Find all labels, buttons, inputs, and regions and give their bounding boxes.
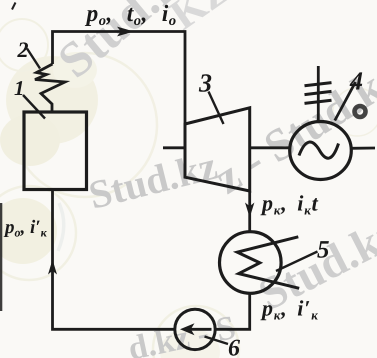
shaft stub left of turbine (163, 146, 185, 149)
scan blob near label 4 (dark watermark bug) (355, 106, 366, 117)
label pk,ikt exhaust steam parameters (260, 195, 318, 215)
label 5 condenser (317, 241, 329, 258)
label p0,ik' feedwater parameters (4, 220, 47, 237)
arrow: feedwater flow up (48, 260, 57, 275)
label p0,t0,i0 main steam parameters (85, 5, 176, 26)
wire: main steam line from boiler top to turbine inlet (53, 32, 186, 125)
arrow: steam flow right on main line (117, 27, 134, 37)
label pointer 4 (335, 82, 356, 121)
generator grid connection riser (317, 66, 320, 122)
condenser (item 5) (220, 232, 282, 294)
label pointer 3 (209, 92, 224, 125)
wire: condensate pipe condenser to pump (215, 294, 250, 330)
wire: exhaust steam pipe turbine to condenser (248, 191, 251, 232)
pump (item 6) (175, 309, 215, 349)
scan artifact bar at left edge (0, 203, 2, 311)
shaft stub right of generator (352, 147, 376, 150)
wire: feedwater pipe pump to boiler (53, 190, 175, 330)
turbine (item 3) (185, 108, 250, 191)
label pointer 5 (276, 252, 318, 272)
label 1 boiler (15, 81, 23, 95)
shaft turbine to generator (250, 146, 290, 149)
label 2 heat input (17, 42, 28, 57)
grid hatch marks (305, 83, 332, 104)
label 6 pump (229, 340, 240, 356)
label pointer 6 (205, 337, 229, 345)
pump flow arrow left (180, 323, 212, 335)
boiler U1 (item 1) (24, 112, 87, 190)
cooling water coil through condenser (237, 237, 299, 288)
heat input zigzag (flame mark, item 2) (35, 64, 65, 112)
sine mark inside generator (299, 142, 339, 158)
label pointer 2 (27, 49, 40, 69)
label pk,ik' condensate parameters (260, 300, 318, 320)
label pointer 1 (23, 95, 45, 119)
label 3 turbine (199, 74, 212, 92)
generator (item 4) (290, 122, 352, 180)
label 4 generator (350, 72, 363, 89)
arrow: exhaust flow down (245, 203, 254, 218)
